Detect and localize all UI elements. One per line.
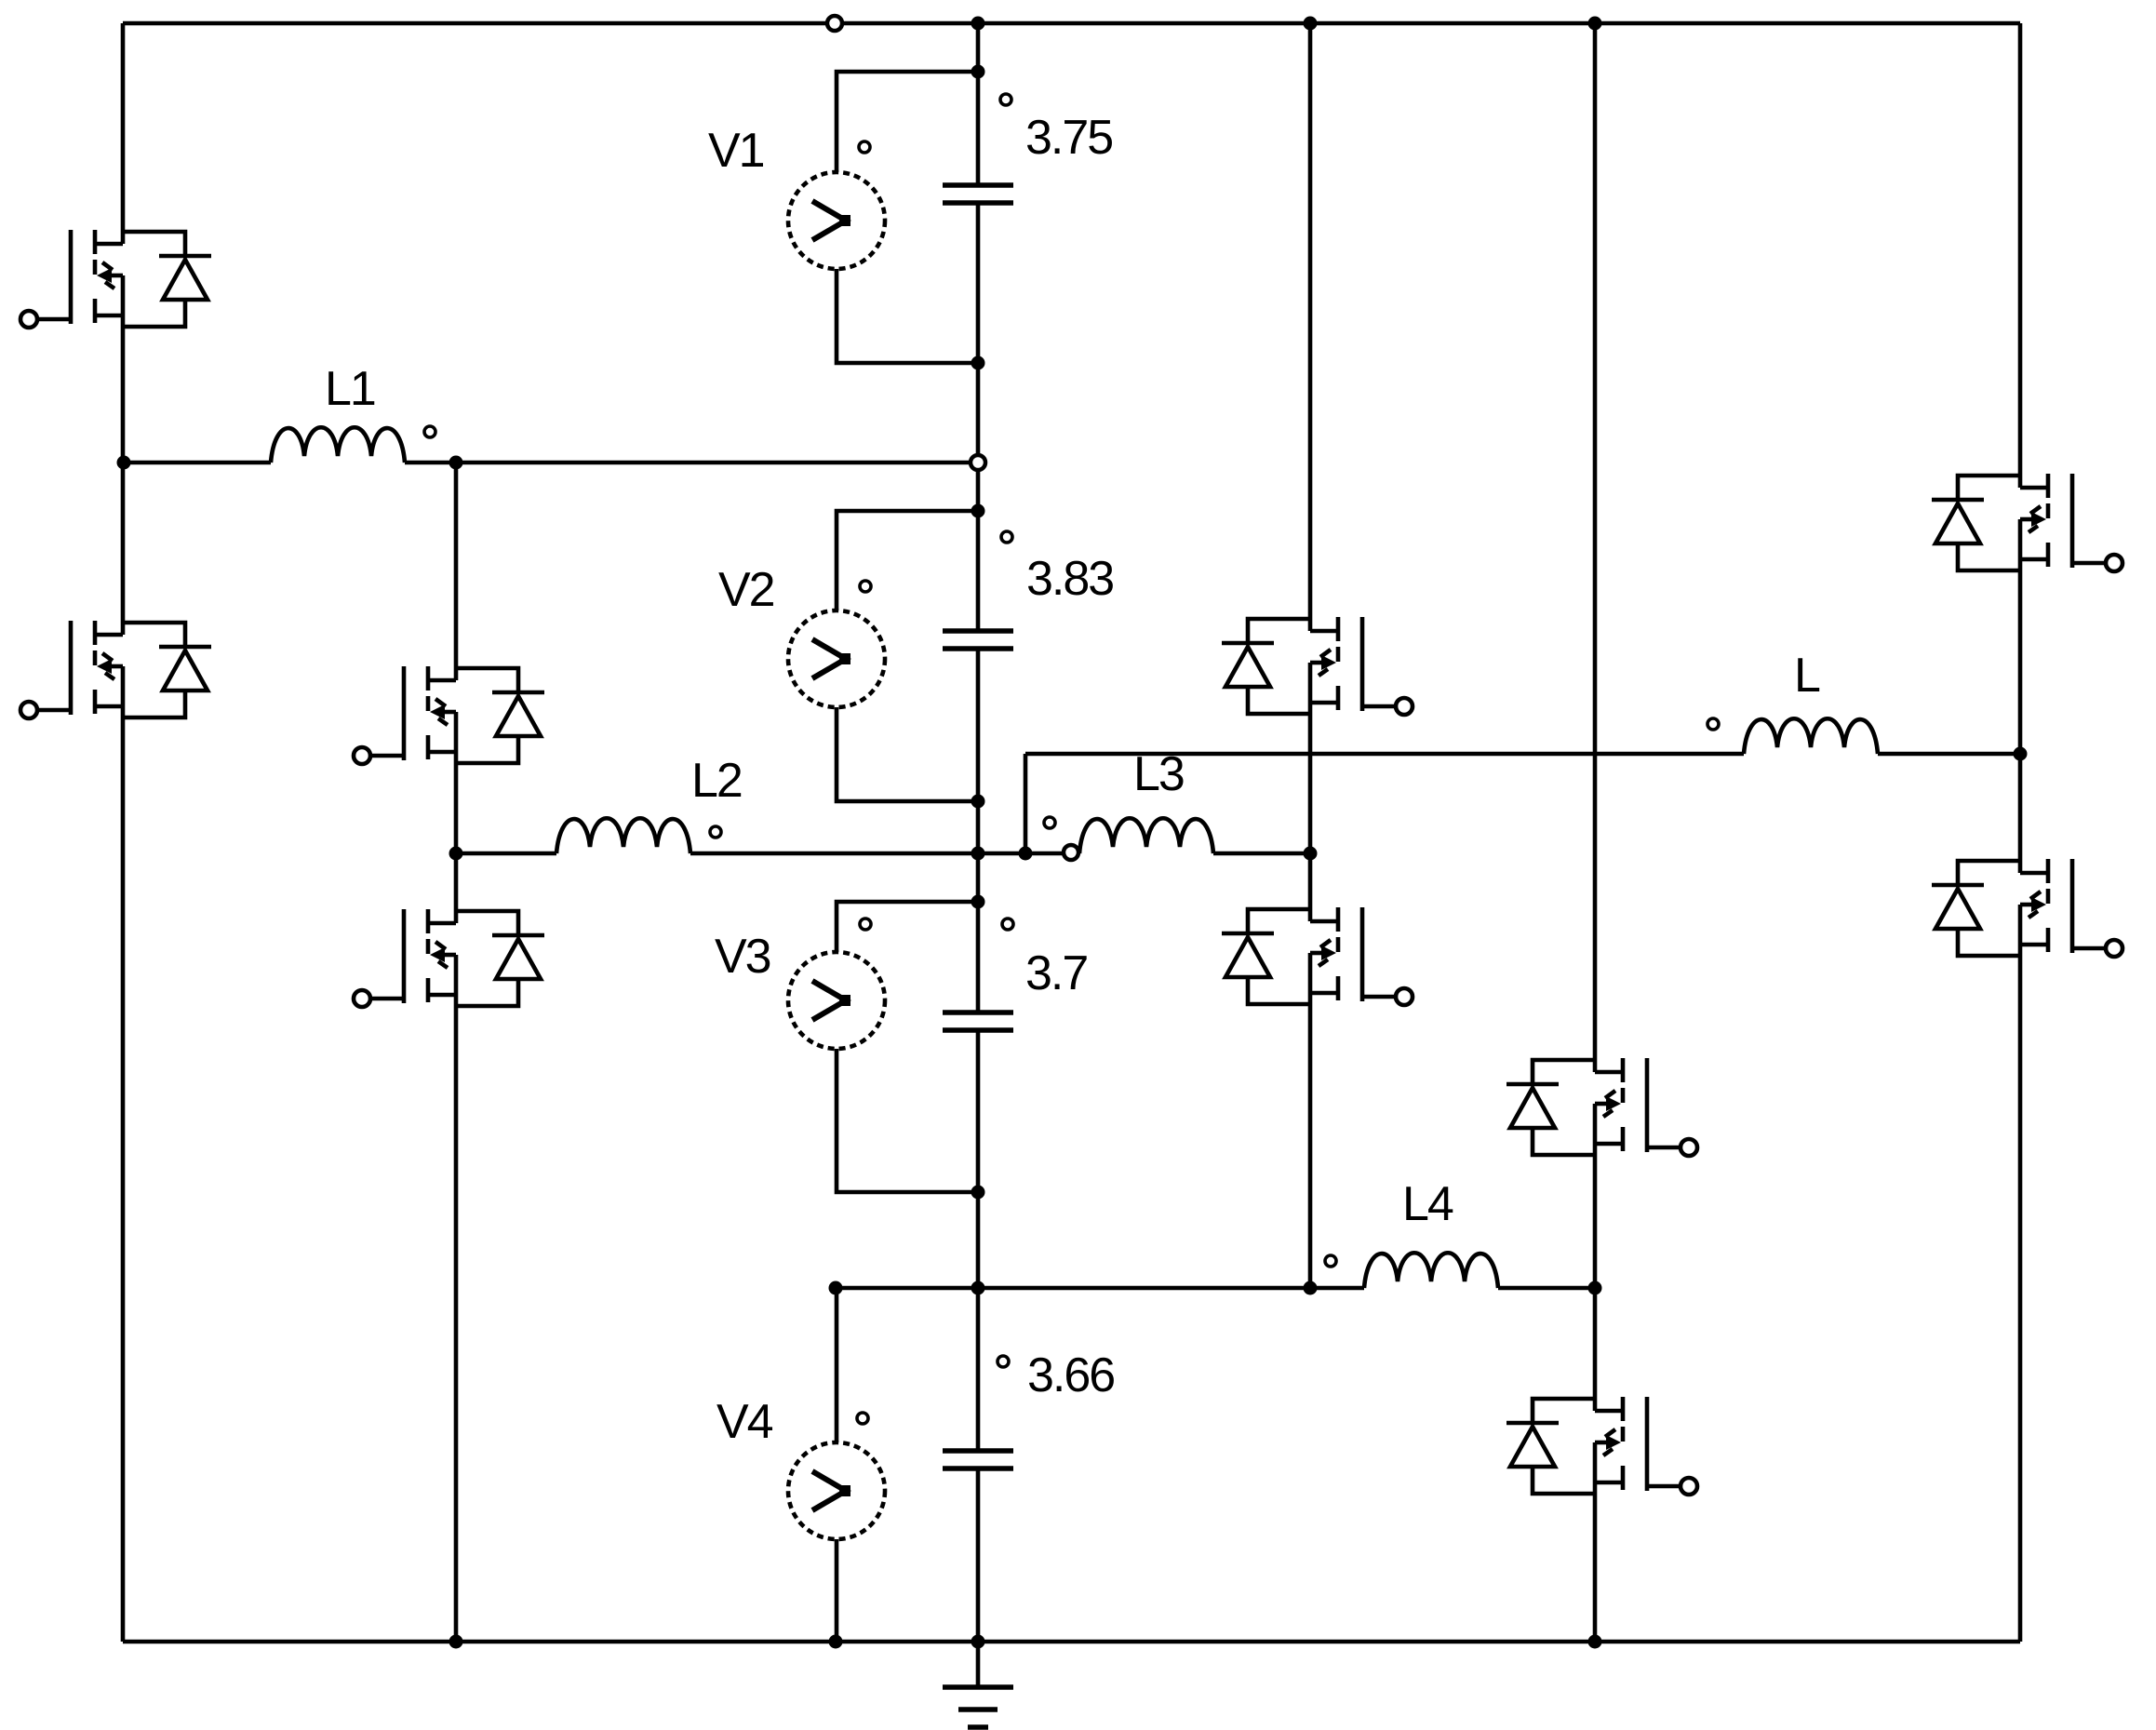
source V2 [788,610,885,707]
wire right rail lower [2018,956,2023,1642]
marker V3 plus [860,919,871,930]
transistor Q2 [20,621,211,718]
node bottom bus x2 [449,1635,463,1649]
capacitor C1 [943,185,1013,203]
source V4 [788,1442,885,1539]
wire L2 row left [456,852,556,856]
wire V4 bottom [835,1539,839,1642]
wire left rail lower [121,717,126,1642]
node L right rail [2014,747,2028,761]
node L3 drop [1019,847,1033,861]
wire left rail upper [121,23,126,232]
node V3 top [971,895,985,909]
node L4 right [1588,1281,1602,1295]
wire L4 row left [836,1286,1364,1291]
svg-text:L3: L3 [1133,747,1184,801]
marker V4 plus [857,1413,868,1424]
wire rail x6 lower [1593,1494,1598,1642]
wire right rail upper [2018,23,2023,476]
wire L2-L3 row middle [690,852,1079,856]
svg-text:3.66: 3.66 [1027,1348,1114,1402]
inductor L4 [1364,1253,1498,1288]
marker L3 dot [1044,817,1055,828]
wire L row drop [1024,754,1028,853]
transistor Q1 [20,230,211,328]
transistor Q6 [1222,907,1413,1005]
inductor L [1744,718,1878,754]
terminal top bus [827,16,842,31]
marker L dot [1707,718,1719,730]
wire bottom bus [123,1640,2020,1644]
wire L1 row left [123,461,271,465]
node L3 right [1304,847,1318,861]
wire L4 row right [1498,1286,1595,1291]
marker C4 [998,1356,1009,1367]
node L4 C column [971,1281,985,1295]
wire L row left [1025,752,1744,757]
marker L1 dot [424,426,435,437]
node L1 left [117,456,131,470]
source V1 [788,172,885,269]
capacitor C2 [943,631,1013,649]
wire L row right [1878,752,2020,757]
transistor Q5 [1222,617,1413,715]
wire rail x6 upper [1593,23,1598,1060]
node V1 top [971,65,985,79]
transistor Q3 [354,666,544,764]
node V3 bottom [971,1186,985,1200]
wire V3 bottom [837,1049,978,1192]
svg-text:V2: V2 [718,563,774,617]
svg-text:3.83: 3.83 [1026,552,1113,606]
node top bus x6 [1588,17,1602,31]
capacitor C3 [943,1013,1013,1030]
inductor L2 [556,818,690,853]
terminal L3 left [1064,845,1078,860]
marker V1 plus [859,141,870,153]
wire V2 bottom [837,707,978,801]
node bottom bus C column [971,1635,985,1649]
wire rail x2 upper [454,463,459,668]
wire V3 top [837,902,978,952]
wire L1 row right [405,461,978,465]
terminal L1 right [971,455,985,470]
marker C1 [1000,94,1011,105]
wire capacitor column seg3 [976,649,981,1013]
wire rail x2 middle [454,763,459,911]
wire right rail middle [2018,570,2023,861]
marker L4 dot [1325,1255,1336,1267]
svg-text:V1: V1 [708,124,764,178]
wire left rail middle [121,327,126,623]
marker C2 [1001,531,1012,543]
svg-text:L1: L1 [325,362,375,416]
inductor L3 [1079,818,1213,853]
transistor Q10 [1932,859,2123,957]
wire capacitor column seg5 [976,1468,981,1642]
wire rail x5 middle [1308,714,1313,909]
source V3 [788,952,885,1049]
svg-text:V3: V3 [715,930,770,984]
wire V4 top [835,1288,839,1442]
svg-text:3.7: 3.7 [1025,946,1087,1000]
wire rail x6 middle [1593,1155,1598,1399]
capacitor C4 [943,1451,1013,1468]
node L1 x2 [449,456,463,470]
wire rail x2 lower [454,1006,459,1642]
transistor Q7 [1507,1058,1697,1156]
node V1 bottom [971,356,985,370]
marker L2 dot [710,826,721,838]
wire capacitor column seg2 [976,203,981,631]
wire capacitor column seg4 [976,1030,981,1451]
node top bus x5 [1304,17,1318,31]
transistor Q9 [1932,474,2123,571]
transistor Q8 [1507,1397,1697,1495]
wire top bus [123,21,2020,26]
marker V2 plus [860,581,871,592]
node bottom bus V4 [829,1635,843,1649]
wire capacitor column seg1 [976,23,981,185]
wire V2 top [837,511,978,610]
node V2 top [971,504,985,518]
inductor L1 [271,427,405,463]
marker C3 [1002,919,1013,930]
svg-text:3.75: 3.75 [1025,111,1112,165]
node L2 left [449,847,463,861]
svg-text:L: L [1794,649,1820,703]
node bottom bus x6 [1588,1635,1602,1649]
node top bus C column [971,17,985,31]
node L2 C column [971,847,985,861]
node V2 bottom [971,795,985,809]
svg-text:L2: L2 [691,754,742,808]
wire V1 bottom [837,269,978,363]
node L4 left [829,1281,843,1295]
node L4 x5 [1304,1281,1318,1295]
wire L3 row right [1213,852,1310,856]
wire V1 top [837,72,978,172]
ground [943,1642,1013,1727]
wire rail x5 upper [1308,23,1313,619]
transistor Q4 [354,909,544,1007]
svg-text:V4: V4 [716,1395,773,1449]
wire rail x5 lower [1308,1004,1313,1288]
svg-text:L4: L4 [1402,1177,1453,1231]
